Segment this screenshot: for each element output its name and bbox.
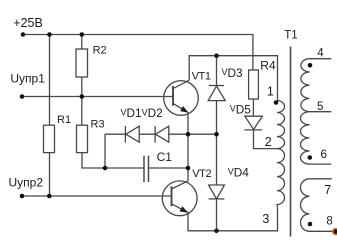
svg-text:R3: R3 — [91, 119, 105, 131]
svg-text:8: 8 — [326, 216, 332, 228]
svg-text:Uупр2: Uупр2 — [9, 175, 44, 189]
svg-text:4: 4 — [317, 48, 324, 60]
svg-text:+25В: +25В — [13, 16, 43, 30]
svg-text:Uупр1: Uупр1 — [10, 72, 45, 86]
svg-text:R2: R2 — [93, 44, 107, 56]
svg-text:1: 1 — [267, 85, 274, 99]
svg-text:VT1: VT1 — [192, 71, 211, 83]
svg-text:R4: R4 — [260, 58, 276, 72]
svg-text:R1: R1 — [57, 114, 71, 126]
svg-text:3: 3 — [262, 212, 269, 226]
svg-text:7: 7 — [324, 183, 331, 197]
svg-text:C1: C1 — [157, 150, 173, 164]
svg-text:5: 5 — [317, 101, 323, 113]
svg-text:T1: T1 — [284, 30, 297, 42]
svg-text:6: 6 — [320, 147, 327, 161]
svg-text:VT2: VT2 — [192, 168, 211, 180]
svg-text:2: 2 — [265, 135, 272, 149]
